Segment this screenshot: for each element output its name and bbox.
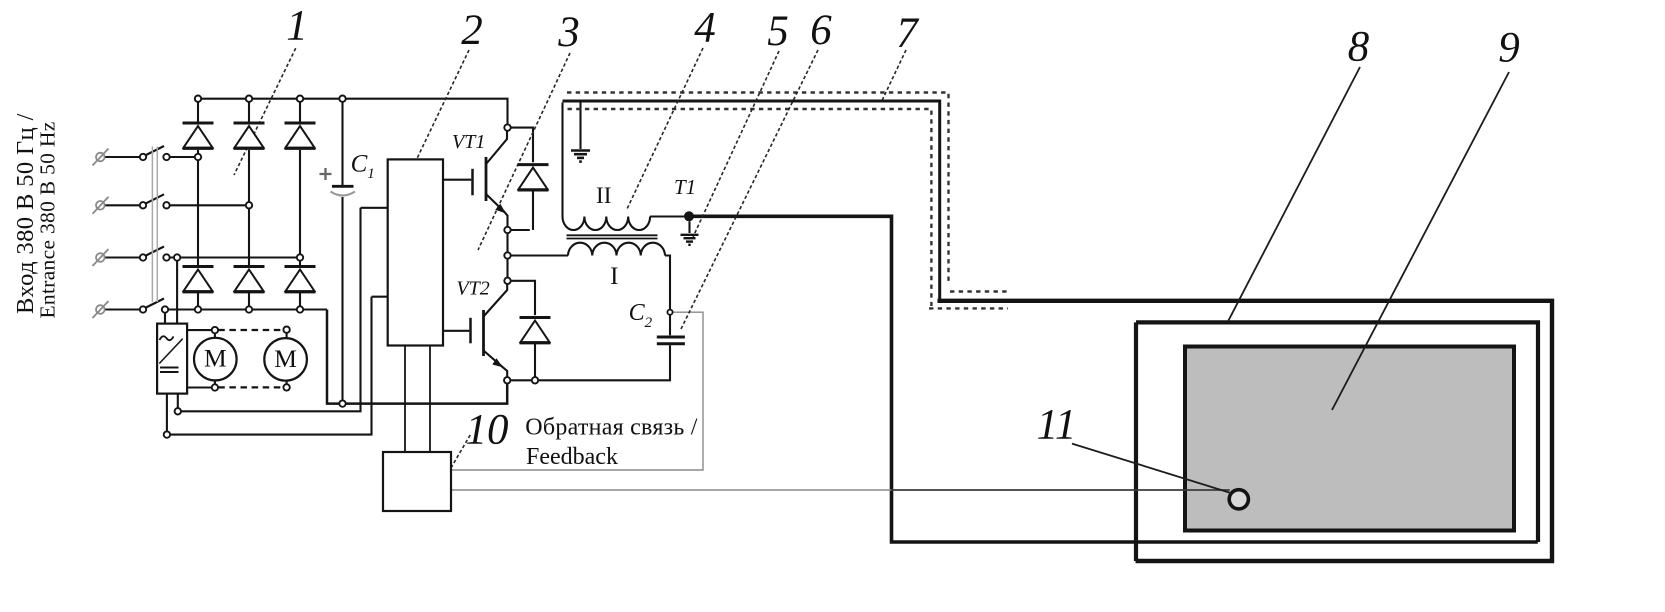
svg-text:Feedback: Feedback <box>526 444 618 470</box>
svg-text:9: 9 <box>1498 25 1520 72</box>
svg-text:10: 10 <box>466 407 509 454</box>
svg-text:7: 7 <box>896 10 919 57</box>
svg-text:VT1: VT1 <box>452 131 485 153</box>
svg-text:T1: T1 <box>674 175 696 199</box>
svg-text:М: М <box>204 344 227 373</box>
svg-text:Обратная связь /: Обратная связь / <box>525 414 697 440</box>
svg-text:II: II <box>596 183 611 208</box>
svg-text:4: 4 <box>694 4 716 51</box>
svg-text:1: 1 <box>286 3 308 50</box>
svg-text:5: 5 <box>767 8 789 55</box>
svg-text:VT2: VT2 <box>456 278 489 300</box>
svg-text:11: 11 <box>1037 402 1077 449</box>
svg-text:Entrance 380 В 50 Hz: Entrance 380 В 50 Hz <box>36 121 60 318</box>
svg-text:М: М <box>274 344 297 373</box>
svg-text:6: 6 <box>810 7 832 54</box>
svg-text:2: 2 <box>461 7 483 54</box>
svg-text:3: 3 <box>557 9 580 56</box>
svg-text:8: 8 <box>1348 23 1370 70</box>
svg-text:I: I <box>610 263 618 290</box>
